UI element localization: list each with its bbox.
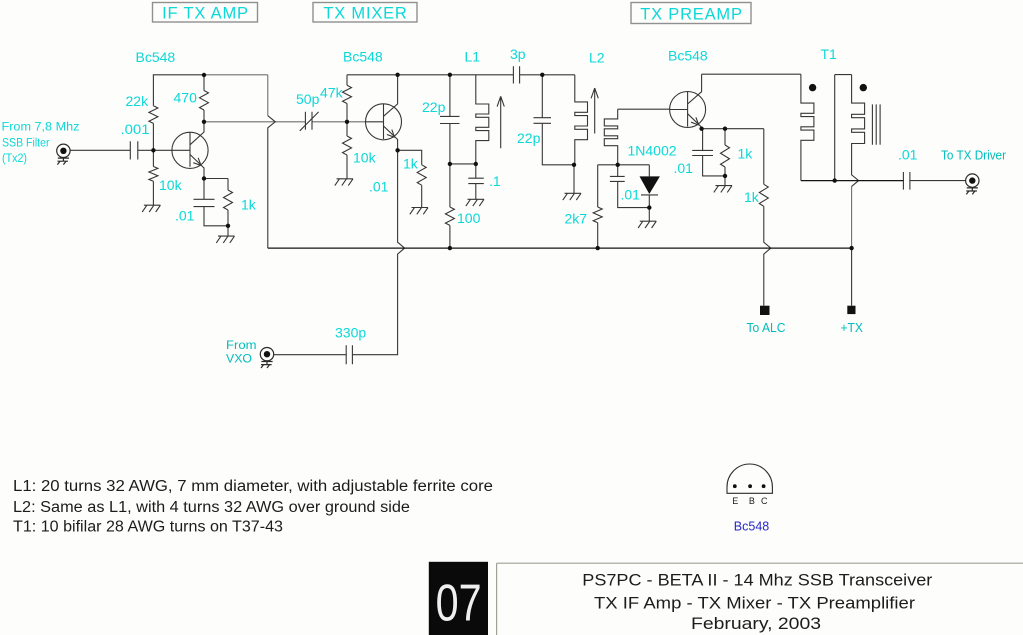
svg-text:1k: 1k bbox=[738, 146, 754, 162]
svg-text:470: 470 bbox=[174, 89, 198, 105]
svg-text:1k: 1k bbox=[241, 197, 257, 213]
svg-text:Bc548: Bc548 bbox=[136, 49, 176, 65]
svg-text:22p: 22p bbox=[517, 130, 541, 146]
svg-text:Bc548: Bc548 bbox=[668, 47, 708, 63]
svg-text:.01: .01 bbox=[621, 186, 641, 202]
svg-text:From 7,8 Mhz: From 7,8 Mhz bbox=[2, 120, 80, 134]
svg-text:.01: .01 bbox=[898, 147, 918, 163]
svg-text:TX IF Amp - TX Mixer - TX Pre: TX IF Amp - TX Mixer - TX Preamplifier bbox=[594, 593, 915, 612]
svg-text:B: B bbox=[749, 496, 755, 506]
svg-text:22p: 22p bbox=[422, 99, 446, 115]
svg-text:10k: 10k bbox=[159, 177, 183, 193]
svg-text:TX MIXER: TX MIXER bbox=[323, 5, 407, 23]
svg-text:47k: 47k bbox=[320, 84, 344, 100]
svg-text:07: 07 bbox=[436, 575, 482, 633]
svg-text:1k: 1k bbox=[403, 155, 419, 171]
svg-text:L1: 20 turns 32 AWG, 7 mm diam: L1: 20 turns 32 AWG, 7 mm diameter, with… bbox=[13, 478, 493, 495]
svg-text:T1: T1 bbox=[821, 46, 838, 62]
svg-text:.001: .001 bbox=[121, 121, 150, 137]
svg-text:+TX: +TX bbox=[841, 320, 864, 335]
svg-text:Bc548: Bc548 bbox=[343, 49, 383, 65]
svg-text:1N4002: 1N4002 bbox=[628, 142, 677, 158]
svg-text:L2: Same as L1, with 4 turns 3: L2: Same as L1, with 4 turns 32 AWG over… bbox=[13, 499, 410, 516]
svg-text:2k7: 2k7 bbox=[565, 210, 588, 226]
svg-text:SSB Filter: SSB Filter bbox=[2, 135, 50, 149]
svg-text:330p: 330p bbox=[335, 325, 366, 341]
svg-text:IF TX AMP: IF TX AMP bbox=[162, 5, 249, 23]
svg-text:TX PREAMP: TX PREAMP bbox=[640, 6, 743, 24]
svg-text:PS7PC - BETA II - 14 Mhz SSB: PS7PC - BETA II - 14 Mhz SSB Transceiver bbox=[582, 570, 932, 589]
svg-text:To TX Driver: To TX Driver bbox=[941, 148, 1007, 163]
svg-text:February, 2003: February, 2003 bbox=[691, 614, 821, 633]
svg-text:(Tx2): (Tx2) bbox=[2, 151, 27, 165]
svg-text:10k: 10k bbox=[353, 149, 377, 165]
svg-text:From: From bbox=[226, 338, 257, 352]
svg-text:L1: L1 bbox=[465, 48, 481, 64]
svg-text:To ALC: To ALC bbox=[747, 320, 786, 335]
svg-text:50p: 50p bbox=[296, 91, 320, 107]
svg-text:C: C bbox=[761, 496, 768, 506]
svg-text:T1: 10 bifilar 28 AWG turns on: T1: 10 bifilar 28 AWG turns on T37-43 bbox=[13, 518, 283, 535]
svg-text:22k: 22k bbox=[126, 93, 150, 109]
svg-text:3p: 3p bbox=[510, 46, 526, 62]
svg-text:.01: .01 bbox=[175, 208, 195, 224]
svg-text:L2: L2 bbox=[589, 50, 605, 66]
svg-text:VXO: VXO bbox=[226, 352, 252, 366]
svg-text:Bc548: Bc548 bbox=[734, 520, 769, 534]
svg-text:.01: .01 bbox=[369, 178, 389, 194]
svg-text:100: 100 bbox=[457, 210, 481, 226]
svg-text:.1: .1 bbox=[489, 173, 501, 189]
svg-text:1k: 1k bbox=[744, 189, 760, 205]
svg-text:E: E bbox=[732, 496, 738, 506]
svg-text:.01: .01 bbox=[674, 160, 694, 176]
